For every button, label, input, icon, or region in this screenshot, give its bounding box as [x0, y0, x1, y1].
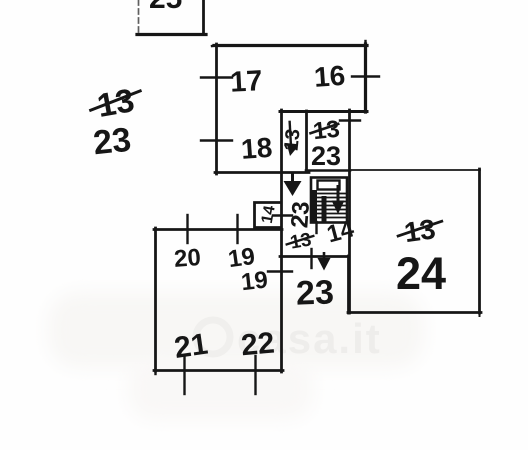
scan wash bottom left: [128, 358, 313, 420]
corridor down arrow: [284, 172, 302, 196]
corner overshoot top wall left: [212, 44, 216, 47]
tick top wall block x237: [236, 215, 238, 243]
small arrowhead under rotated 13: [287, 143, 298, 156]
window tick left wall y140: [201, 139, 232, 141]
svg-text:20: 20: [173, 244, 202, 273]
svg-text:23: 23: [286, 200, 315, 229]
scan wash lower area: [48, 292, 424, 368]
svg-text:18: 18: [240, 132, 273, 165]
svg-text:24: 24: [396, 248, 446, 299]
small box 14: [255, 203, 282, 229]
door tick room23 x311: [310, 249, 312, 268]
svg-text:13: 13: [402, 213, 437, 248]
svg-text:23: 23: [295, 273, 334, 312]
bottom wall room 18: [215, 171, 309, 174]
main top wall rooms 17-16: [214, 44, 367, 47]
bottom wall room 16: [280, 110, 367, 113]
label 13 crossed room 24: [394, 212, 446, 249]
tick top wall block x187: [186, 215, 188, 243]
bottom room 23 right wall: [347, 256, 350, 313]
corner overshoot 24 bottom right: [479, 313, 481, 316]
stairs treads: [312, 194, 346, 218]
bottom room 23 top wall: [280, 255, 349, 258]
top box right wall: [202, 0, 205, 35]
svg-text:17: 17: [229, 65, 263, 99]
top box bottom wall: [137, 33, 206, 36]
corridor inner wall x306: [305, 111, 308, 172]
svg-text:23: 23: [311, 141, 341, 171]
svg-text:14: 14: [259, 204, 279, 225]
tick x281 y215: [273, 214, 292, 216]
label 13 crossed strip: [308, 116, 342, 146]
bottom-left block left wall: [154, 228, 157, 371]
room23 door down arrow: [318, 252, 331, 271]
tick below stairs: [315, 222, 317, 233]
window tick right wall 16: [352, 75, 379, 77]
wall below 23 cell y171: [306, 169, 350, 172]
stairs outer rect: [311, 178, 347, 223]
corridor strip left wall: [280, 110, 283, 372]
svg-text:13: 13: [94, 81, 137, 124]
corner overshoot block bottom left: [154, 371, 156, 374]
corridor right wall x350: [348, 110, 351, 313]
watermark circle icon: [196, 320, 230, 354]
window tick x350 y120: [340, 119, 360, 121]
svg-text:22: 22: [240, 327, 276, 363]
top box left wall: [138, 0, 140, 34]
stairs dark stringer left: [312, 190, 318, 222]
stairs down arrow: [332, 185, 345, 214]
label 13 crossed stairs: [284, 229, 317, 255]
stairs top landing inner box: [318, 181, 340, 190]
tick x281 y271: [268, 270, 292, 272]
svg-text:21: 21: [172, 328, 210, 365]
left wall rooms 17-18: [215, 44, 218, 174]
svg-text:23: 23: [91, 121, 133, 163]
label 13 crossed outside left: [85, 80, 146, 126]
right wall room 16: [364, 44, 367, 112]
tick bottom wall x255: [254, 356, 256, 394]
svg-text:25: 25: [149, 0, 182, 15]
bottom-left block bottom wall: [154, 369, 283, 372]
svg-text:13: 13: [280, 128, 304, 152]
room 24 bottom wall: [348, 311, 481, 314]
svg-text:16: 16: [313, 60, 346, 93]
svg-text:19: 19: [240, 267, 269, 297]
bottom-left block top wall: [154, 228, 282, 231]
label 13 rotated crossed corridor: [280, 120, 305, 153]
room 24 right wall: [478, 169, 481, 313]
tick bottom wall x184: [183, 356, 185, 394]
stairs dark stringer mid: [322, 196, 327, 222]
room 24 top wall thin: [350, 169, 480, 171]
window tick left wall y77: [201, 76, 232, 78]
corner overshoot 16 top right: [364, 41, 366, 45]
